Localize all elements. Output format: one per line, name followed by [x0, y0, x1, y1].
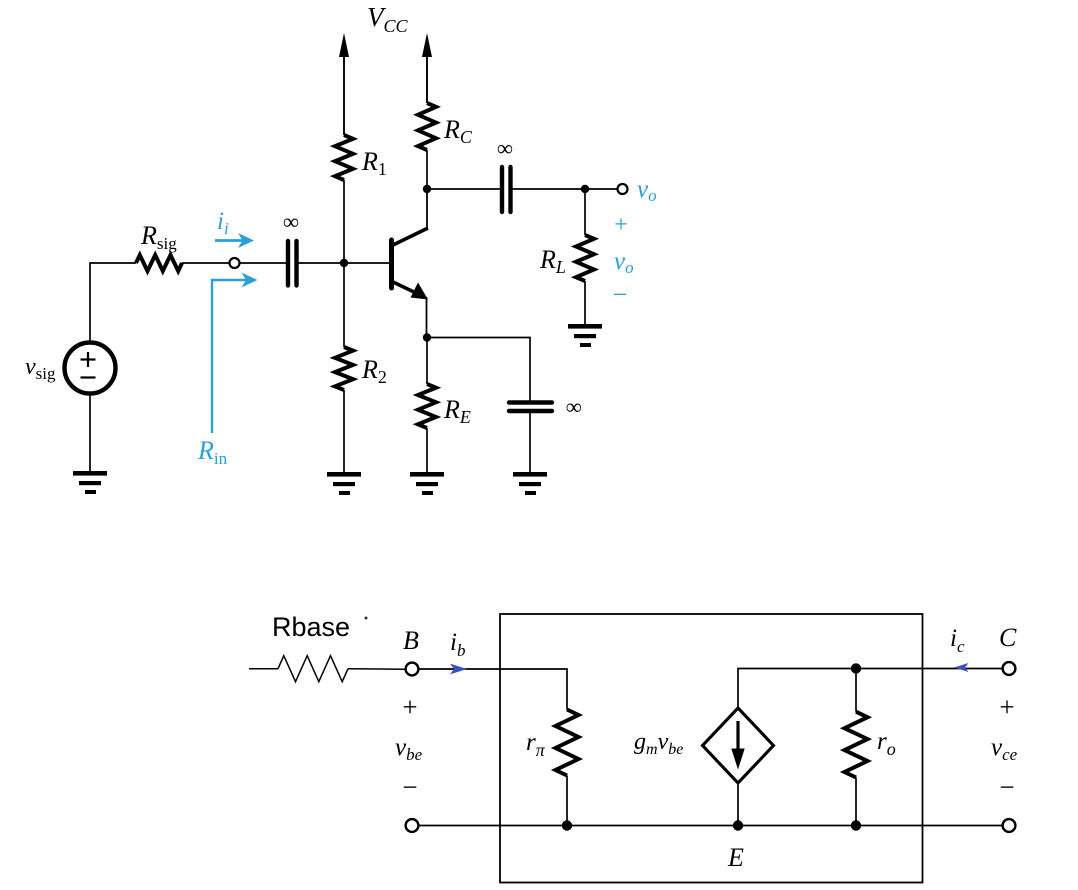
node open circle input — [230, 258, 240, 268]
resistor RE — [418, 384, 436, 428]
svg-text:vce: vce — [991, 734, 1018, 764]
wire RC to collector node — [426, 150, 428, 189]
wire source top — [737, 783, 739, 826]
svg-text:gmvbe: gmvbe — [634, 729, 683, 758]
svg-text:R2: R2 — [361, 355, 387, 387]
terminal E- open circle right — [1003, 819, 1016, 832]
resistor RL — [576, 189, 594, 326]
svg-text:B: B — [403, 626, 419, 655]
wire CE to ground — [529, 413, 531, 474]
model box — [500, 614, 923, 883]
svg-text:∞: ∞ — [283, 209, 299, 234]
wire source top to C rail — [738, 669, 1003, 709]
svg-text:∞: ∞ — [497, 136, 513, 161]
transistor Q1 — [392, 189, 429, 337]
wire Rsig to node — [182, 262, 229, 264]
wire emitter to RE — [426, 338, 428, 385]
wire vsig bottom — [89, 393, 91, 473]
svg-text:Rsig: Rsig — [140, 221, 177, 253]
terminal B open circle — [406, 663, 419, 676]
node B junction dot — [340, 259, 348, 267]
capacitor CC2 (infinite) — [502, 167, 511, 212]
svg-text:+: + — [999, 692, 1014, 722]
Rin arrow and line — [212, 273, 258, 434]
node collector dot — [423, 185, 431, 193]
svg-text:−: − — [613, 280, 628, 309]
svg-text:RE: RE — [443, 395, 471, 427]
svg-text:vbe: vbe — [395, 734, 423, 764]
svg-text:RL: RL — [539, 245, 566, 277]
wire R1 to R2 — [343, 180, 345, 347]
VCC arrow left (R1 branch) — [339, 33, 349, 135]
wire output node to terminal — [585, 188, 617, 190]
wire base node to transistor — [344, 262, 389, 264]
wire collector node to CC2 — [427, 188, 500, 190]
resistor RC — [418, 103, 436, 150]
ground (CE) — [513, 472, 547, 495]
wire B to rpi top — [419, 669, 568, 710]
svg-text:VCC: VCC — [367, 2, 409, 36]
svg-text:Rin: Rin — [197, 436, 228, 468]
svg-text:R1: R1 — [361, 147, 387, 179]
source vsig — [65, 343, 116, 394]
node emitter dot — [423, 333, 431, 341]
svg-text:vo: vo — [637, 176, 657, 205]
svg-text:−: − — [402, 772, 417, 802]
node ro top dot — [851, 663, 861, 673]
wire node to CC1 — [240, 262, 286, 264]
svg-text:rπ: rπ — [526, 729, 546, 760]
current ic arrowhead — [954, 663, 969, 672]
emitter vertical — [426, 297, 428, 337]
wire CC1 to base node — [298, 262, 344, 264]
terminal vo open circle — [618, 184, 628, 194]
svg-text:−: − — [999, 772, 1014, 802]
emitter arrowhead — [411, 283, 429, 300]
svg-text:+: + — [614, 212, 628, 238]
dependent source gm*vbe — [703, 708, 774, 783]
svg-text:E: E — [727, 843, 744, 872]
svg-text:vo: vo — [614, 248, 634, 277]
terminal C open circle — [1003, 662, 1016, 675]
current ii arrow — [215, 233, 254, 248]
current ib arrowhead — [450, 664, 467, 675]
svg-text:ic: ic — [950, 625, 965, 656]
svg-text:Rbase: Rbase — [272, 612, 350, 642]
resistor R1 — [335, 135, 353, 180]
resistor ro — [845, 669, 868, 826]
ground (RE) — [410, 472, 444, 495]
wire vsig top — [90, 263, 136, 343]
resistor R2 — [335, 347, 353, 390]
capacitor CC1 (infinite) — [288, 241, 297, 286]
svg-text:C: C — [999, 623, 1017, 652]
emitter diagonal — [392, 282, 416, 294]
collector diagonal — [392, 228, 428, 246]
wire RE to ground — [426, 428, 428, 474]
node rpi bottom dot — [562, 820, 572, 830]
terminal E- open circle left — [406, 819, 419, 832]
svg-text:vsig: vsig — [25, 354, 56, 383]
svg-text:ii: ii — [217, 208, 229, 238]
svg-text:RC: RC — [443, 115, 473, 147]
base bar — [389, 240, 394, 288]
svg-text:+: + — [402, 692, 417, 722]
svg-text:ro: ro — [877, 728, 896, 759]
resistor Rbase — [249, 656, 406, 682]
ground (RL) — [568, 324, 602, 347]
VCC arrow right (RC branch) — [422, 33, 432, 103]
wire CC2 to output node — [512, 188, 585, 190]
collector vertical — [426, 189, 428, 229]
wire R2 to ground — [343, 390, 345, 474]
svg-text:∞: ∞ — [566, 394, 582, 419]
capacitor CE bypass (infinite) — [509, 403, 552, 412]
node source bottom dot — [733, 820, 743, 830]
ground (vsig) — [73, 471, 107, 494]
resistor Rsig — [136, 255, 182, 271]
ground (R2) — [327, 472, 361, 495]
stray dot — [365, 617, 368, 620]
node ro bottom dot — [851, 820, 861, 830]
wire emitter node to bypass cap — [427, 338, 530, 401]
resistor rpi — [556, 710, 579, 826]
svg-text:ib: ib — [450, 629, 465, 660]
node output dot — [581, 185, 589, 193]
bottom rail wire — [419, 825, 1003, 827]
